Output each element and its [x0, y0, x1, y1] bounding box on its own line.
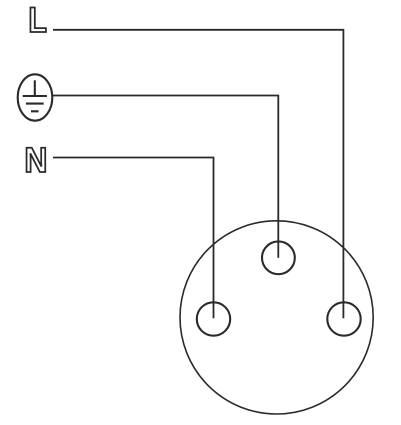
earth symbol short bar — [31, 110, 39, 112]
earth symbol enclosing ellipse — [18, 74, 53, 120]
left pin hole (neutral) — [197, 302, 230, 335]
node N label — [27, 148, 46, 172]
earth symbol stem — [34, 80, 36, 96]
right pin hole (live) — [327, 302, 360, 335]
top pin hole (earth) — [262, 241, 295, 274]
earth symbol long bar — [23, 95, 47, 97]
wire N (neutral) to left pin — [53, 158, 214, 319]
node L label — [30, 8, 46, 32]
wire earth to top pin — [52, 96, 278, 258]
socket body circle — [180, 221, 373, 414]
earth symbol middle bar — [26, 103, 44, 105]
earth symbol PE — [18, 74, 53, 120]
wire L (live) to right pin — [53, 30, 343, 319]
